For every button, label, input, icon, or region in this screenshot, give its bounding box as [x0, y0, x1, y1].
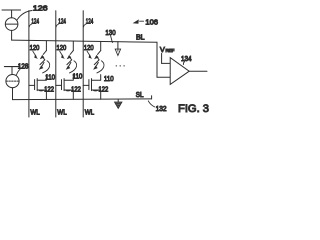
svg-text:WL: WL [85, 107, 94, 116]
wire from I2 to SL bus [12, 88, 14, 100]
wire comparator output [189, 70, 207, 72]
svg-text:120: 120 [57, 43, 67, 52]
leader arrow 120 cell3 [87, 51, 90, 56]
wire SL bus [13, 98, 152, 101]
cell2 wire stub from bus [72, 41, 74, 51]
leader 128 [17, 69, 21, 75]
current source I2 stub [11, 67, 13, 75]
column 3 vertical wire (124 / WL) [82, 11, 84, 117]
leader arrow 120 cell1 [33, 51, 36, 56]
svg-text:106: 106 [145, 17, 158, 26]
current source I1 chord [6, 23, 18, 25]
transistor Q1 gate feed [29, 84, 35, 86]
current source I1 (circle) ref 126 [5, 18, 18, 31]
array reference arrow 106 [133, 19, 139, 23]
current source I2 dashed chord [6, 80, 19, 82]
transistor Q1 gate bar [34, 80, 36, 90]
leader 122 cell2 [65, 90, 70, 91]
wire from I1 to BL bus [11, 30, 13, 40]
svg-text:120: 120 [84, 43, 94, 52]
transistor Q3 gate feed [83, 84, 89, 86]
transistor Q1 drain stub [37, 75, 46, 81]
svg-text:BL: BL [136, 32, 145, 41]
svg-text:120: 120 [30, 43, 40, 52]
wire VREF drop [161, 53, 163, 63]
wire BL to comparator minus input [157, 76, 170, 78]
wire VREF to comparator plus input [162, 62, 171, 64]
transistor Q3 gate bar [88, 80, 90, 90]
wire BL down segment [156, 42, 158, 77]
cell2 programming bolt arrows (element 110) [67, 51, 73, 67]
svg-text:132: 132 [156, 104, 167, 113]
ground symbol on SL [117, 99, 119, 102]
current source I1 top stub wire [11, 10, 13, 18]
chassis ground arrow below BL bus [117, 42, 119, 49]
leader 122 cell3 [93, 90, 98, 91]
svg-text:126: 126 [33, 4, 48, 13]
leader 124 col3 [84, 24, 87, 27]
transistor Q2 source stub [64, 90, 73, 99]
transistor Q3 source stub [92, 90, 101, 99]
leader 130 [111, 36, 113, 43]
svg-text:122: 122 [99, 84, 109, 93]
transistor Q2 gate feed [56, 84, 62, 86]
svg-text:110: 110 [104, 74, 114, 83]
transistor Q2 channel [63, 79, 65, 91]
current source I2 rail bar [4, 66, 20, 68]
leader 110 cell2 [70, 61, 77, 73]
cell1 programming bolt arrows (element 110) [40, 51, 46, 67]
current source I1 top rail bar [2, 9, 21, 11]
leader 110 cell1 [43, 61, 50, 73]
leader 124 col2 [56, 24, 59, 27]
svg-text:REF: REF [166, 48, 175, 53]
cell3 programming bolt arrows (element 110) [94, 51, 100, 67]
leader 122 cell1 [38, 90, 43, 91]
transistor Q2 drain stub [64, 75, 73, 81]
wire SL end notch [151, 96, 153, 99]
wire BL bus [12, 40, 157, 42]
svg-text:FIG. 3: FIG. 3 [178, 103, 209, 115]
leader 124 col1 [29, 24, 32, 27]
transistor Q1 channel [36, 79, 38, 91]
leader 134 [183, 62, 184, 65]
svg-text:WL: WL [30, 107, 39, 116]
svg-text:122: 122 [44, 84, 54, 93]
cell3 wire stub from bus [100, 42, 102, 51]
svg-text:134: 134 [181, 54, 192, 63]
cell1 wire stub from bus [45, 41, 47, 51]
leader 132 [148, 101, 154, 107]
leader arrow 120 cell2 [60, 51, 63, 56]
svg-text:124: 124 [86, 16, 94, 25]
svg-text:124: 124 [58, 16, 66, 25]
ellipsis node (more columns) [116, 65, 117, 66]
transistor Q3 drain stub [92, 75, 101, 81]
column 1 vertical wire (124 / WL) [28, 11, 30, 117]
op-amp comparator U1 (134) [170, 58, 189, 85]
leader for 126 [17, 11, 32, 20]
transistor Q3 channel [91, 79, 93, 91]
svg-text:WL: WL [57, 107, 66, 116]
current source I2 (circle) ref 128 [6, 75, 19, 88]
column 2 vertical wire (124 / WL) [55, 11, 57, 117]
transistor Q2 gate bar [61, 80, 63, 90]
leader 110 cell3 [97, 61, 104, 73]
svg-text:110: 110 [73, 71, 83, 80]
transistor Q1 source stub [37, 90, 46, 99]
svg-text:124: 124 [31, 16, 39, 25]
svg-text:122: 122 [71, 84, 81, 93]
svg-text:SL: SL [136, 90, 144, 99]
svg-text:V: V [160, 45, 165, 54]
